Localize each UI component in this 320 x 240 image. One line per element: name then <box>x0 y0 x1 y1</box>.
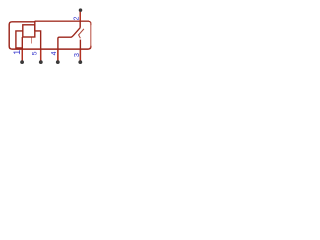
pin 1 wire <box>21 37 23 62</box>
coil box K1 <box>23 25 35 37</box>
pin 1 stub wire <box>21 50 23 60</box>
wire from top edge down to coil right terminal <box>34 21 36 31</box>
terminal dot pin 3 <box>56 60 60 64</box>
top pin wire <box>79 11 81 28</box>
terminal dot top pin 2 <box>79 8 83 12</box>
svg-text:4: 4 <box>51 51 58 55</box>
switch section top edge <box>35 21 91 25</box>
terminal dot pin 2 bottom <box>39 60 43 64</box>
terminal dot pin 4 <box>78 60 82 64</box>
pin 5 stub wire <box>40 50 42 60</box>
svg-text:1: 1 <box>12 50 22 55</box>
relay body outline <box>9 22 91 49</box>
pin 4 wire <box>79 40 81 63</box>
contact chevron <box>79 29 84 38</box>
pin 4 stub wire <box>57 50 59 60</box>
wire coil right terminal to pin 2 bottom <box>35 31 41 62</box>
inner light box around switch section <box>35 20 89 22</box>
terminal dot pin 1 <box>20 60 24 64</box>
switch section right edge <box>90 22 92 47</box>
pin 3 wire with switch pole horizontal and lever diagonal <box>58 28 80 62</box>
top pin 2 stub wire <box>79 11 81 20</box>
coil lower winding wire <box>16 31 23 48</box>
pin 3 stub wire <box>79 50 81 60</box>
svg-text:5: 5 <box>32 51 39 55</box>
coil lower winding light right edge <box>31 38 33 44</box>
svg-text:3: 3 <box>72 53 81 57</box>
svg-text:2: 2 <box>71 17 80 21</box>
